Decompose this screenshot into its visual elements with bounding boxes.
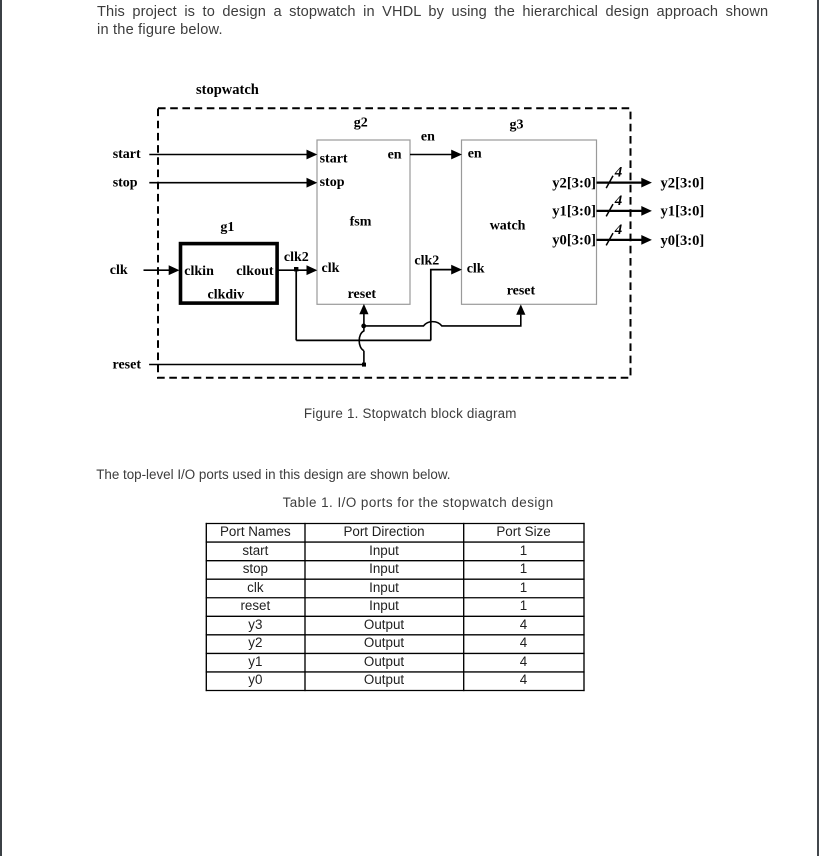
wire clkout to fsm clk <box>277 269 307 271</box>
page left edge bar <box>0 0 2 856</box>
wire stop input <box>149 182 307 184</box>
junction dot reset node <box>361 324 366 329</box>
table caption <box>283 494 554 512</box>
bus slash y0 <box>606 233 613 245</box>
wire y1 bus output <box>597 210 643 212</box>
paragraph 1 <box>97 3 768 39</box>
junction dot clk2 node <box>294 267 298 271</box>
wire start input <box>149 154 307 156</box>
arrowhead start into fsm <box>307 150 318 160</box>
arrowhead y2 output <box>641 178 652 188</box>
arrowhead clk2 into watch clk <box>451 265 462 275</box>
wire clk2 rise to watch clk <box>431 270 452 341</box>
bus slash y2 <box>606 176 613 188</box>
arrowhead y1 output <box>641 206 652 216</box>
block g2 fsm <box>317 140 410 304</box>
arrowhead y0 output <box>641 235 652 245</box>
wire clk input <box>144 269 170 271</box>
wire reset branch to watch with hop over clk2 riser <box>364 315 521 326</box>
arrowhead clk2 into fsm clk <box>307 265 318 275</box>
wire clk2 bottom run <box>296 339 431 341</box>
wire reset input run <box>149 351 364 365</box>
wire reset hop over clk2 run <box>359 326 364 351</box>
arrowhead clk into g1 <box>169 265 180 275</box>
arrowhead en into watch <box>451 150 462 160</box>
figure: stopwatch block diagram <box>0 0 819 445</box>
wire y2 bus output <box>597 182 643 184</box>
bus slash y1 <box>606 204 613 216</box>
wire reset to fsm reset pin <box>363 314 365 326</box>
I/O ports table <box>206 523 584 690</box>
wire y0 bus output <box>597 239 643 241</box>
arrowhead stop into fsm <box>307 178 318 188</box>
block g3 watch <box>462 140 597 304</box>
wire en from fsm to watch <box>410 154 452 156</box>
paragraph 2 <box>96 466 450 484</box>
arrowhead reset into fsm <box>359 304 368 314</box>
figure caption <box>304 405 517 423</box>
corner junction reset run <box>362 363 366 367</box>
block g1 clkdiv <box>181 244 278 304</box>
dashed boundary of top-level stopwatch entity <box>158 108 631 378</box>
page right edge line <box>817 0 819 856</box>
wire clk2 drop from junction <box>295 270 297 340</box>
arrowhead reset into watch <box>516 304 525 314</box>
